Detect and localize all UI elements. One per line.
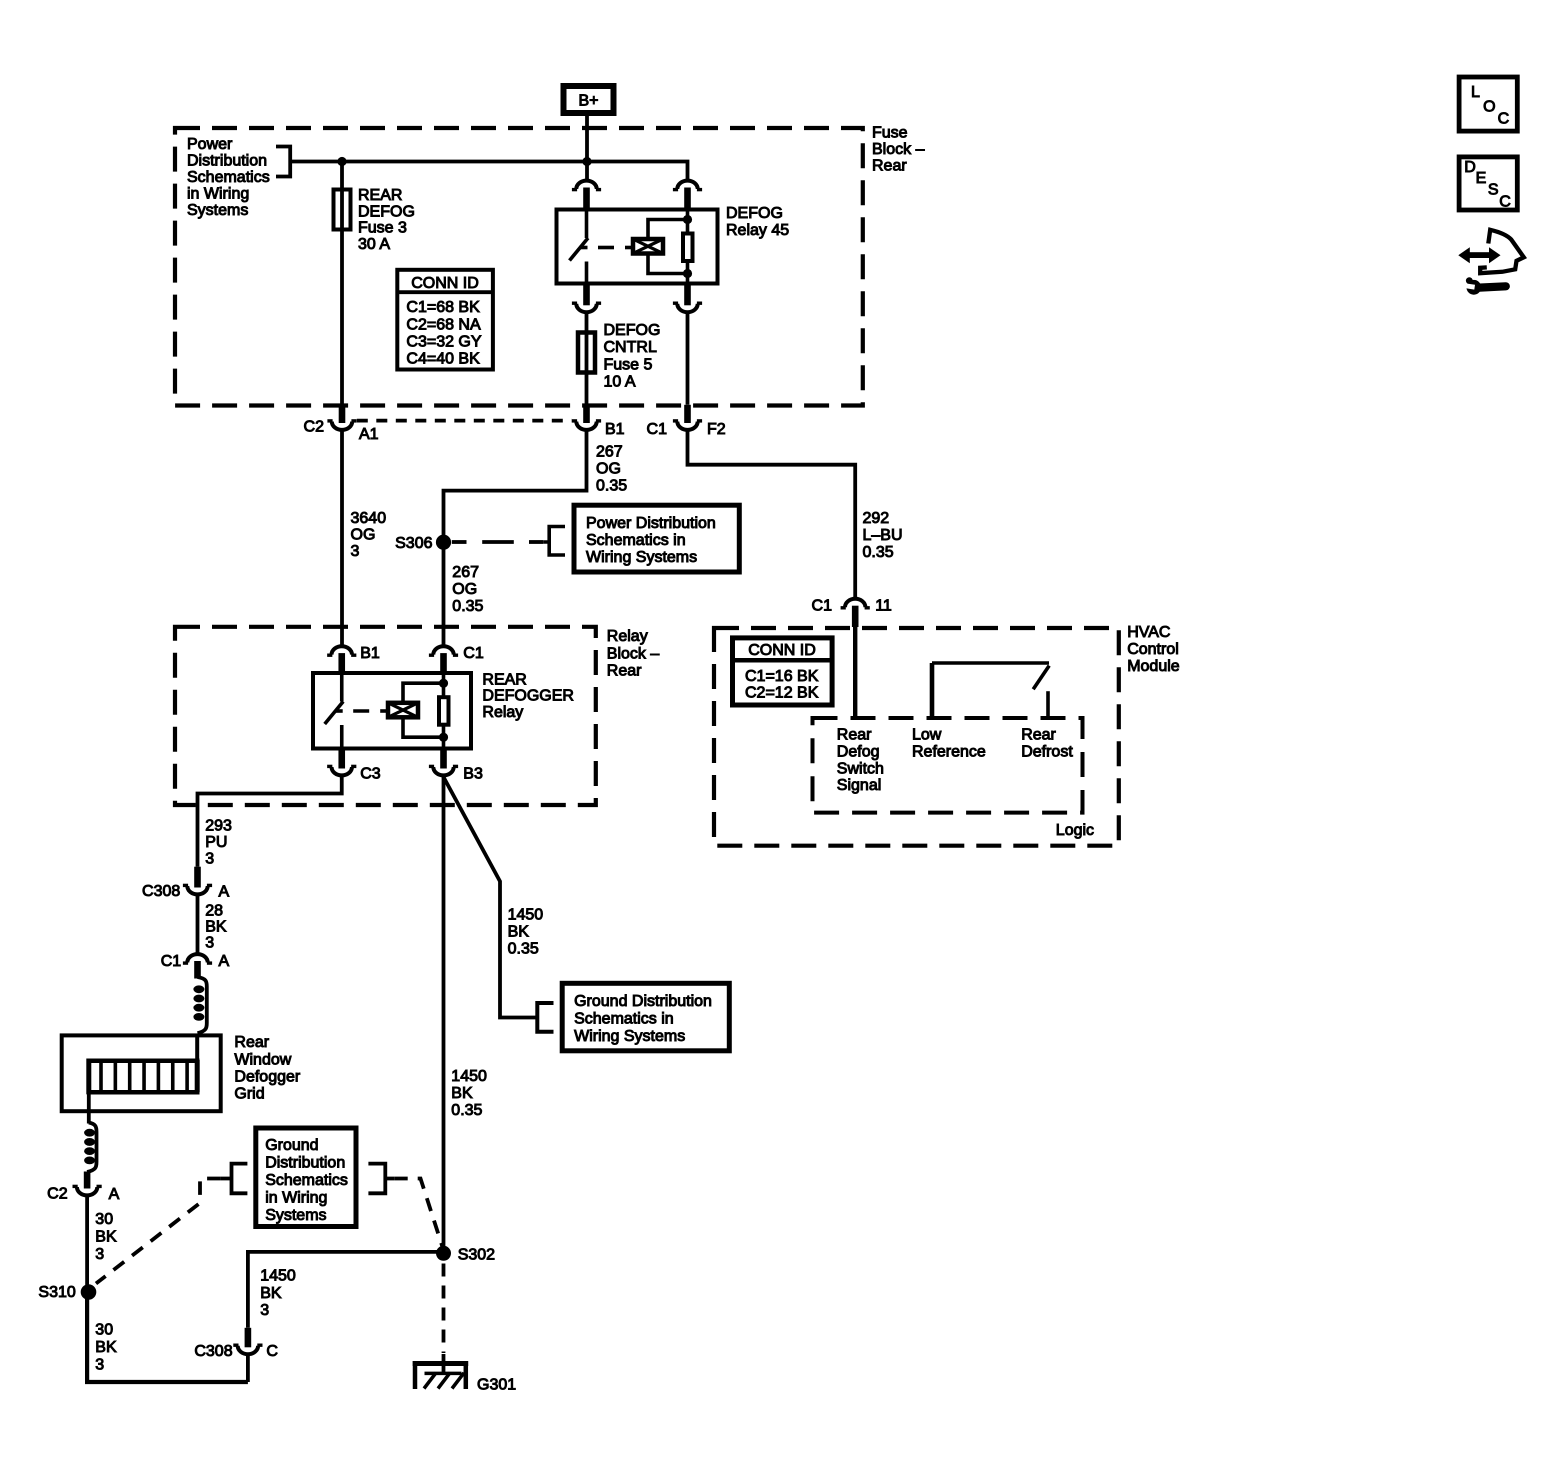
svg-text:Window: Window <box>234 1051 291 1068</box>
relay 45 junctions <box>683 215 692 278</box>
label 267 OG 0.35 lower <box>452 564 483 615</box>
svg-text:Signal: Signal <box>837 777 881 794</box>
svg-text:Relay: Relay <box>482 704 523 721</box>
svg-text:OG: OG <box>351 527 376 544</box>
svg-text:OG: OG <box>596 460 621 477</box>
svg-text:Switch: Switch <box>837 760 884 777</box>
svg-text:S302: S302 <box>458 1247 495 1264</box>
connector C3 relay block <box>327 750 381 783</box>
relay block - rear dashed outline <box>175 627 596 805</box>
svg-text:11: 11 <box>875 597 892 614</box>
rear defogger relay coil <box>388 703 418 718</box>
svg-text:Grid: Grid <box>234 1085 264 1102</box>
svg-text:C3=32 GY: C3=32 GY <box>406 333 481 350</box>
label Power Distribution Schematics in Wiring Systems <box>187 136 270 219</box>
relay 45 switch <box>570 210 589 284</box>
svg-text:Rear: Rear <box>234 1034 269 1051</box>
svg-text:C2=68 NA: C2=68 NA <box>406 316 481 333</box>
svg-text:C308: C308 <box>194 1343 232 1360</box>
svg-text:Fuse: Fuse <box>872 124 908 141</box>
svg-text:3: 3 <box>205 850 214 867</box>
wire relay 45 to F2 <box>686 313 690 405</box>
svg-text:3: 3 <box>95 1246 104 1263</box>
LOC icon <box>1459 77 1517 131</box>
svg-text:B1: B1 <box>605 421 625 438</box>
logic dashed outline <box>813 718 1083 813</box>
svg-text:Rear: Rear <box>837 727 872 744</box>
svg-text:L: L <box>1471 84 1480 101</box>
rear defogger relay switch <box>325 673 344 749</box>
bracket left of ground distribution <box>221 1164 248 1194</box>
wire 28 BK 3 <box>198 894 227 954</box>
connector B1 relay block <box>327 645 380 673</box>
svg-text:0.35: 0.35 <box>863 544 894 561</box>
svg-text:C: C <box>266 1343 278 1360</box>
connector C1 F2 <box>647 405 726 438</box>
svg-text:30: 30 <box>95 1211 113 1228</box>
svg-text:C1: C1 <box>647 421 668 438</box>
svg-text:267: 267 <box>452 564 479 581</box>
wire low reference to rear defrost switch <box>932 663 1049 718</box>
labels logic pins <box>837 727 1074 795</box>
svg-text:REAR: REAR <box>358 187 402 204</box>
svg-text:Block –: Block – <box>872 141 925 158</box>
svg-text:C1: C1 <box>161 953 182 970</box>
svg-text:Low: Low <box>912 727 942 744</box>
wire 1450 BK 3 <box>248 1252 444 1382</box>
relay 45 coil wires <box>648 220 688 274</box>
svg-text:C2=12 BK: C2=12 BK <box>745 684 819 701</box>
HVAC control module dashed outline <box>714 628 1119 846</box>
dashed link to S302 <box>394 1179 442 1248</box>
svg-text:BK: BK <box>205 919 227 936</box>
dashed wire S302 to G301 <box>442 1264 446 1354</box>
connector row dotted line <box>357 419 572 423</box>
svg-text:28: 28 <box>205 903 223 920</box>
svg-text:C: C <box>1499 194 1511 211</box>
wire through fuse 3 <box>340 162 344 405</box>
svg-text:in Wiring: in Wiring <box>265 1190 327 1207</box>
relay DEFOG Relay 45 box <box>557 205 790 284</box>
svg-text:Rear: Rear <box>607 662 642 679</box>
junction at fuse 3 <box>337 157 346 166</box>
power symbol B+ <box>564 86 614 113</box>
svg-text:DEFOGGER: DEFOGGER <box>482 688 574 705</box>
fuse DEFOG CNTRL Fuse 5 10 A <box>578 322 660 391</box>
relay 45 output pins <box>572 285 702 312</box>
svg-text:Defogger: Defogger <box>234 1068 300 1085</box>
svg-text:DEFOG: DEFOG <box>358 203 415 220</box>
svg-text:Relay 45: Relay 45 <box>726 222 789 239</box>
splice S302 <box>436 1246 495 1264</box>
svg-text:F2: F2 <box>707 421 726 438</box>
svg-text:Fuse 5: Fuse 5 <box>604 356 653 373</box>
relay 45 pin line <box>686 210 690 284</box>
dashed lead to power distribution reference <box>452 527 565 556</box>
svg-text:C308: C308 <box>142 883 180 900</box>
svg-text:10 A: 10 A <box>604 374 636 391</box>
rear defogger relay pin line <box>442 673 446 749</box>
coil lead out of defogger grid <box>84 1094 96 1172</box>
svg-text:PU: PU <box>205 834 227 851</box>
wire 267 OG 0.35 from B1 <box>444 430 628 647</box>
ground G301 <box>413 1354 517 1394</box>
svg-text:Wiring Systems: Wiring Systems <box>586 549 697 566</box>
svg-text:A: A <box>219 953 230 970</box>
svg-text:Reference: Reference <box>912 743 986 760</box>
connector pins into DEFOG Relay 45 <box>572 181 702 209</box>
svg-text:C3: C3 <box>360 766 381 783</box>
svg-text:Schematics: Schematics <box>187 169 270 186</box>
svg-text:293: 293 <box>205 817 232 834</box>
svg-text:C4=40 BK: C4=40 BK <box>406 350 480 367</box>
dashed link to S310 <box>96 1179 221 1284</box>
label Fuse Block - Rear <box>872 124 925 174</box>
svg-text:CONN ID: CONN ID <box>748 642 816 659</box>
wire 30 BK 3 upper <box>87 1195 117 1292</box>
coil lead into defogger grid <box>193 977 206 1033</box>
svg-text:D: D <box>1464 159 1476 176</box>
rear defogger relay junctions <box>439 679 448 742</box>
connector C1 11 HVAC <box>812 597 892 627</box>
svg-text:O: O <box>1483 99 1495 116</box>
svg-text:3640: 3640 <box>351 510 387 527</box>
switch blade rear defrost <box>1033 666 1049 718</box>
svg-text:BK: BK <box>508 924 530 941</box>
svg-text:Module: Module <box>1127 658 1180 675</box>
rear window defogger grid box <box>62 1034 301 1111</box>
svg-text:S: S <box>1488 182 1499 199</box>
svg-text:CONN ID: CONN ID <box>411 275 479 292</box>
svg-text:Wiring Systems: Wiring Systems <box>574 1028 685 1045</box>
svg-text:30: 30 <box>95 1322 113 1339</box>
rear defogger relay coil wires <box>403 683 444 737</box>
svg-text:C1: C1 <box>812 597 833 614</box>
connector C2 A grid <box>47 1172 119 1204</box>
fuse REAR DEFOG Fuse 3 30 A <box>334 187 415 253</box>
svg-text:3: 3 <box>351 543 360 560</box>
svg-text:B1: B1 <box>360 645 380 662</box>
label Relay Block - Rear <box>607 628 660 679</box>
wire 1450 BK 0.35 from B3 to S302 <box>444 775 487 1252</box>
reference box Ground Distribution left <box>256 1128 356 1227</box>
CONN ID table fuse block <box>397 270 493 370</box>
bracket right of ground distribution <box>368 1164 394 1194</box>
svg-text:B+: B+ <box>578 93 598 110</box>
relay 45 coil <box>633 239 663 254</box>
svg-text:Defrost: Defrost <box>1021 743 1073 760</box>
wire 293 PU 3 <box>198 775 342 867</box>
defogger grid element <box>87 1035 200 1094</box>
svg-text:1450: 1450 <box>451 1068 487 1085</box>
reference box Ground Distribution Schematics in Wiring Systems <box>562 983 729 1051</box>
svg-text:Logic: Logic <box>1056 822 1094 839</box>
rear defogger relay coil drive dashes <box>336 709 387 713</box>
bracket to Power Distribution Schematics <box>276 147 290 177</box>
fuse block - rear dashed outline <box>175 128 863 406</box>
svg-text:Block –: Block – <box>607 645 660 662</box>
svg-text:in Wiring: in Wiring <box>187 186 249 203</box>
svg-text:Schematics: Schematics <box>265 1172 348 1189</box>
svg-text:Defog: Defog <box>837 743 880 760</box>
wire relay to fuse 5 <box>585 313 589 405</box>
svg-text:BK: BK <box>451 1085 473 1102</box>
svg-text:REAR: REAR <box>482 671 526 688</box>
svg-text:HVAC: HVAC <box>1127 624 1170 641</box>
wire main feed bus <box>290 162 687 181</box>
svg-text:A: A <box>109 1186 120 1203</box>
label Logic <box>1056 822 1094 839</box>
svg-text:Rear: Rear <box>872 157 907 174</box>
relay 45 coil drive dashes <box>581 246 632 250</box>
wire rear defog switch signal input <box>853 627 857 718</box>
svg-text:BK: BK <box>95 1228 117 1245</box>
bracket to ground distribution reference <box>537 1003 553 1032</box>
wire 3640 OG 3 <box>342 430 386 647</box>
svg-text:A1: A1 <box>359 426 379 443</box>
svg-text:3: 3 <box>95 1357 104 1374</box>
svg-text:Schematics in: Schematics in <box>586 532 686 549</box>
connector B1 <box>572 405 625 438</box>
wire 30 BK 3 lower <box>87 1292 248 1382</box>
rear defogger relay resistor <box>439 697 449 725</box>
svg-text:3: 3 <box>205 935 214 952</box>
relay 45 resistor <box>683 234 693 262</box>
svg-text:Fuse 3: Fuse 3 <box>358 220 407 237</box>
svg-text:B3: B3 <box>463 766 483 783</box>
svg-text:S306: S306 <box>395 535 432 552</box>
svg-text:3: 3 <box>260 1302 269 1319</box>
svg-text:267: 267 <box>596 443 623 460</box>
svg-text:C1=68 BK: C1=68 BK <box>406 299 480 316</box>
wire 292 L-BU 0.35 <box>688 430 903 600</box>
svg-text:E: E <box>1476 170 1487 187</box>
svg-text:C1: C1 <box>463 645 484 662</box>
svg-text:Ground Distribution: Ground Distribution <box>574 993 712 1010</box>
svg-text:1450: 1450 <box>260 1267 296 1284</box>
svg-text:C2: C2 <box>47 1186 68 1203</box>
svg-text:Distribution: Distribution <box>265 1154 345 1171</box>
tools icon <box>1458 230 1524 295</box>
relay REAR DEFOGGER Relay box <box>313 671 574 748</box>
svg-text:C: C <box>1498 111 1510 128</box>
svg-text:L–BU: L–BU <box>863 527 903 544</box>
svg-text:C2: C2 <box>304 419 325 436</box>
label HVAC Control Module <box>1127 624 1180 675</box>
svg-text:Power Distribution: Power Distribution <box>586 515 716 532</box>
svg-text:Control: Control <box>1127 641 1179 658</box>
wire from B+ to relay <box>585 113 589 181</box>
svg-text:0.35: 0.35 <box>451 1102 482 1119</box>
svg-text:Ground: Ground <box>265 1137 318 1154</box>
svg-text:A: A <box>219 884 230 901</box>
svg-text:Schematics in: Schematics in <box>574 1011 674 1028</box>
svg-text:C1=16 BK: C1=16 BK <box>745 668 819 685</box>
svg-text:Systems: Systems <box>187 202 248 219</box>
svg-text:OG: OG <box>452 581 477 598</box>
junction at B+ drop <box>582 157 591 166</box>
svg-text:Distribution: Distribution <box>187 153 267 170</box>
svg-text:Power: Power <box>187 136 233 153</box>
svg-text:S310: S310 <box>38 1284 75 1301</box>
svg-text:Relay: Relay <box>607 628 648 645</box>
connector C308 C <box>194 1328 278 1360</box>
svg-text:DEFOG: DEFOG <box>726 205 783 222</box>
svg-text:Rear: Rear <box>1021 727 1056 744</box>
svg-text:0.35: 0.35 <box>452 598 483 615</box>
svg-text:BK: BK <box>95 1339 117 1356</box>
connector C308 A <box>142 867 229 901</box>
wire 1450 BK 0.35 branch to ground reference <box>444 777 544 1018</box>
svg-text:G301: G301 <box>477 1377 516 1394</box>
svg-text:BK: BK <box>260 1285 282 1302</box>
connector C2 A1 <box>304 405 379 443</box>
svg-text:292: 292 <box>863 510 890 527</box>
svg-text:DEFOG: DEFOG <box>604 322 661 339</box>
svg-text:Systems: Systems <box>265 1207 326 1224</box>
splice S310 <box>38 1284 96 1301</box>
svg-text:CNTRL: CNTRL <box>604 339 657 356</box>
connector B3 relay block <box>429 750 483 783</box>
reference box Power Distribution Schematics in Wiring Systems <box>574 505 739 572</box>
connector C1 relay block <box>429 645 484 673</box>
svg-text:0.35: 0.35 <box>508 941 539 958</box>
svg-text:30 A: 30 A <box>358 236 390 253</box>
DESC icon <box>1459 157 1517 211</box>
CONN ID table HVAC <box>733 638 833 705</box>
connector C1 A <box>161 953 230 978</box>
splice S306 <box>395 535 451 552</box>
svg-text:1450: 1450 <box>508 907 544 924</box>
svg-text:0.35: 0.35 <box>596 477 627 494</box>
